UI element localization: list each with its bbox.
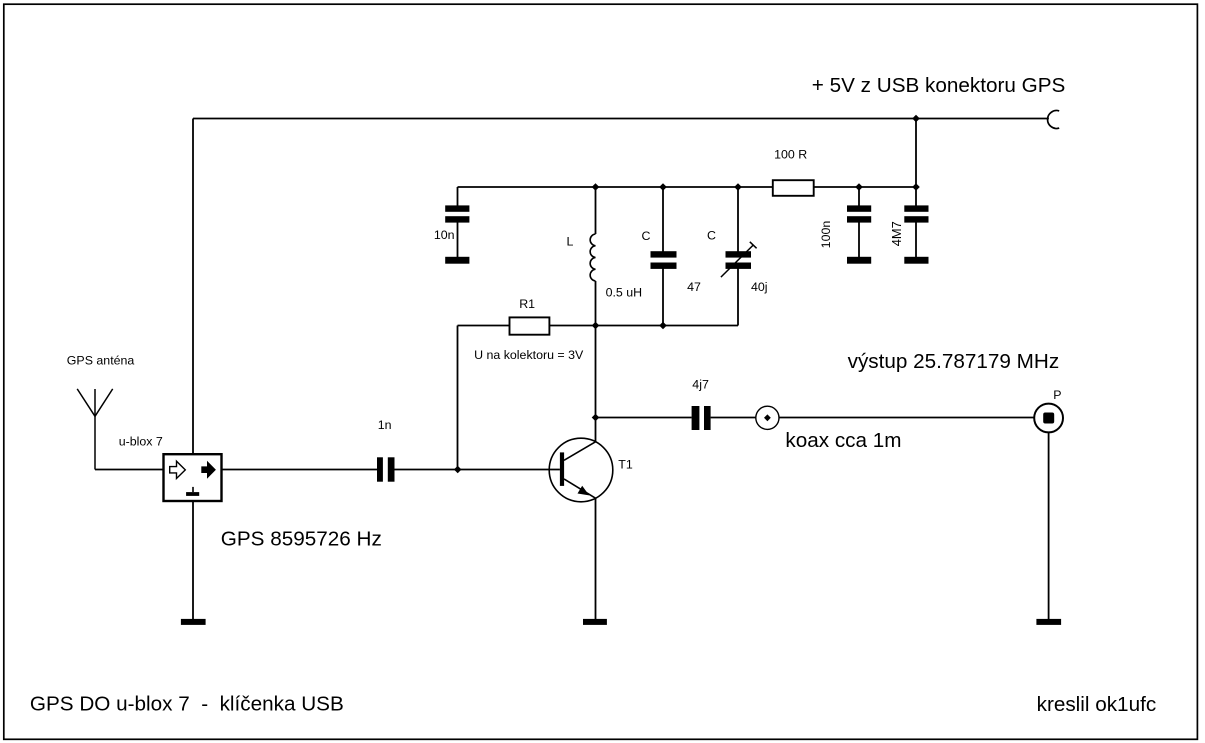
wire 1n to transistor base: [395, 469, 560, 471]
capacitor 10n: [445, 205, 469, 222]
wire module bottom to ground: [192, 501, 194, 620]
svg-text:100n: 100n: [819, 221, 833, 249]
antenna GPS: [77, 389, 113, 470]
label + 5V z USB konektoru GPS: [812, 74, 1066, 97]
wire emitter to ground: [595, 498, 597, 619]
svg-text:C: C: [707, 229, 716, 243]
svg-text:GPS anténa: GPS anténa: [67, 354, 135, 368]
label title GPS DO u-blox 7 - klicenka USB: [30, 693, 344, 716]
svg-text:T1: T1: [618, 458, 633, 472]
ground bar of 100n: [847, 257, 871, 264]
inductor L: [590, 187, 595, 326]
junction node C47 top: [659, 183, 667, 191]
svg-text:40j: 40j: [751, 280, 768, 294]
resistor R1: [510, 317, 550, 334]
svg-text:koax cca 1m: koax cca 1m: [785, 429, 901, 452]
wire R1 branch down to base node: [457, 326, 459, 470]
svg-text:0.5 uH: 0.5 uH: [606, 286, 643, 300]
capacitor 4j7: [692, 406, 711, 430]
label 100n (rotated): [819, 221, 833, 249]
connector P: [1034, 404, 1063, 433]
label GPS anténa: [67, 354, 135, 368]
svg-text:R1: R1: [519, 297, 535, 311]
junction node C40j top: [734, 183, 742, 191]
label vystup 25.787179 MHz: [848, 350, 1060, 373]
label U na kolektoru = 3V: [474, 348, 584, 362]
junction node L bottom: [592, 322, 600, 330]
wire P to ground: [1048, 433, 1050, 620]
ground under P: [1036, 619, 1061, 625]
svg-text:kreslil ok1ufc: kreslil ok1ufc: [1037, 693, 1157, 716]
wire 10n drop from tank rail: [457, 187, 459, 258]
svg-text:4j7: 4j7: [692, 377, 709, 391]
ground bar of 4M7: [904, 257, 928, 264]
junction base node: [454, 466, 462, 474]
koax connector (circle with center dot): [756, 406, 779, 429]
label 100 R: [774, 148, 807, 162]
svg-text:U na kolektoru = 3V: U na kolektoru = 3V: [474, 348, 584, 362]
label R1: [519, 297, 535, 311]
junction node C47 bottom: [659, 322, 667, 330]
svg-text:GPS 8595726 Hz: GPS 8595726 Hz: [221, 528, 382, 551]
svg-text:L: L: [567, 235, 574, 249]
label koax cca 1m: [785, 429, 901, 452]
svg-text:1n: 1n: [378, 418, 392, 432]
label 1n: [378, 418, 392, 432]
svg-text:GPS DO u-blox 7 - klíčenka U: GPS DO u-blox 7 - klíčenka USB: [30, 693, 344, 716]
ground under transistor: [583, 619, 607, 625]
trimmer capacitor C 40j: [721, 187, 757, 326]
wire +5V rail down to u-blox module: [192, 119, 194, 455]
svg-text:u-blox 7: u-blox 7: [119, 434, 163, 448]
wire 4j7 to koax connector: [711, 417, 756, 419]
capacitor 4M7: [904, 187, 928, 258]
wire collector up to tank: [595, 326, 597, 442]
label 40j: [751, 280, 768, 294]
wire koax to P connector: [779, 417, 1034, 419]
svg-text:100 R: 100 R: [774, 148, 807, 162]
label L: [567, 235, 574, 249]
svg-text:+ 5V z USB konektoru GPS: + 5V z USB konektoru GPS: [812, 74, 1066, 97]
junction node 100n top: [855, 183, 863, 191]
capacitor 1n: [377, 457, 395, 481]
label 4M7 (rotated): [889, 221, 904, 246]
wire +5V rail down to tank rail at x=916: [915, 119, 917, 188]
svg-text:C: C: [642, 229, 651, 243]
label 0.5 uH: [606, 286, 643, 300]
label T1: [618, 458, 633, 472]
junction collector output node: [592, 414, 600, 422]
ground under module: [181, 619, 206, 625]
svg-text:výstup 25.787179 MHz: výstup 25.787179 MHz: [848, 350, 1060, 373]
wire tank bottom rail: [458, 325, 739, 327]
ground bar of 10n: [445, 257, 469, 264]
wire antenna to module: [95, 469, 164, 471]
label GPS 8595726 Hz: [221, 528, 382, 551]
junction node L top: [592, 183, 600, 191]
svg-text:47: 47: [687, 280, 701, 294]
label C of 40j: [707, 229, 716, 243]
label C of 47: [642, 229, 651, 243]
svg-text:4M7: 4M7: [889, 221, 904, 246]
junction on +5V rail: [912, 115, 920, 123]
label 10n: [434, 228, 455, 242]
capacitor C 47: [651, 187, 677, 326]
label 4j7: [692, 377, 709, 391]
transistor T1: [549, 438, 613, 502]
wire +5V top rail: [193, 118, 1049, 120]
capacitor 100n: [847, 187, 871, 258]
label P: [1053, 388, 1061, 402]
label 47: [687, 280, 701, 294]
wire tank top rail right segment: [814, 186, 916, 188]
label u-blox 7: [119, 434, 163, 448]
resistor 100 R: [773, 180, 814, 196]
svg-text:10n: 10n: [434, 228, 455, 242]
wire collector to 4j7: [596, 417, 692, 419]
wire module output to 1n: [222, 469, 378, 471]
label kreslil ok1ufc: [1037, 693, 1157, 716]
wire tank top rail left segment: [458, 186, 773, 188]
junction node 4M7 top: [912, 183, 920, 191]
connector +5V USB (open arc): [1048, 111, 1060, 129]
u-blox 7 module U1: [164, 454, 222, 501]
svg-text:P: P: [1053, 388, 1061, 402]
